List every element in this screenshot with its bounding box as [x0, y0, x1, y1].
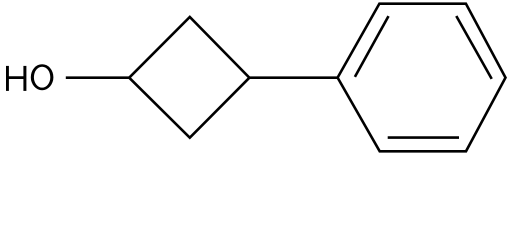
cyclobutane ring (C1-C2-C3-C4): [129, 17, 249, 138]
benzene double bond inner line (upper-right edge): [456, 16, 491, 79]
hydroxyl label HO : letter H: [7, 66, 27, 91]
bond C3-phenyl (cyclobutane right vertex to benzene left vertex): [249, 76, 337, 79]
bond O-C1 (HO to cyclobutane left vertex): [66, 76, 129, 79]
benzene double bond inner line (upper-left edge): [355, 16, 389, 77]
benzene double bond inner line (bottom edge): [388, 136, 459, 139]
benzene ring outline: [338, 4, 506, 152]
hydroxyl label HO : letter O: [31, 64, 54, 90]
